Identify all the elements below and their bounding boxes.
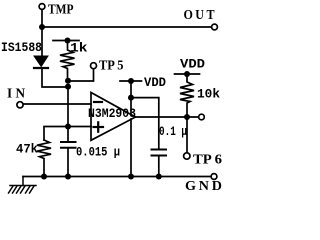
svg-text:O U T: O U T	[184, 8, 216, 23]
capacitor C1 0.015u	[61, 127, 76, 177]
op-amp VDD pin wire	[130, 98, 132, 114]
svg-text:TP 6: TP 6	[193, 153, 222, 168]
svg-text:G N D: G N D	[185, 179, 222, 194]
wire node C to op-amp plus input	[68, 126, 91, 128]
svg-text:N3M2903: N3M2903	[88, 107, 136, 121]
node E junction dot	[184, 114, 190, 120]
wire node A to diode anode	[41, 27, 43, 56]
svg-text:47k: 47k	[16, 143, 38, 157]
ground symbol	[9, 177, 37, 194]
svg-text:TP 5: TP 5	[99, 59, 124, 74]
wire IN to op-amp inverting input	[23, 103, 91, 105]
wire C2 bottom to rail	[158, 157, 160, 177]
wire node A to OUT	[42, 26, 212, 28]
op-amp output wire	[136, 116, 199, 118]
terminal output circle	[199, 114, 205, 120]
capacitor C2 0.1u	[152, 150, 167, 156]
resistor R1 1k supply bar	[53, 38, 79, 44]
op-amp U1 NJM2903	[91, 93, 136, 141]
terminal IN	[17, 102, 23, 108]
op-amp minus sign	[94, 101, 102, 103]
op-amp GND pin wire	[130, 119, 132, 177]
op-amp plus sign	[94, 122, 104, 131]
VDD supply stub R2	[175, 71, 200, 77]
node D junction dot	[128, 95, 134, 101]
wire VDD stub down to node D	[130, 81, 132, 98]
wire TMP to node A	[41, 10, 43, 28]
svg-text:0.015 μ: 0.015 μ	[76, 146, 120, 160]
junction dot C1 on rail	[65, 174, 71, 180]
wire diode cathode down and right to node B	[42, 68, 68, 87]
node B upper junction dot (TP5 tap)	[65, 78, 71, 84]
resistor R1 1k body	[60, 41, 75, 82]
wire node C left to resistor R3	[44, 127, 68, 141]
terminal GND	[211, 174, 217, 180]
svg-text:VDD: VDD	[144, 76, 166, 90]
svg-text:1k: 1k	[70, 42, 88, 56]
junction dot U1 gnd on rail	[128, 174, 134, 180]
terminal TP5	[91, 63, 97, 69]
wire node B to TP5	[68, 69, 94, 81]
wire node B down to plus input node C	[67, 87, 69, 127]
node C junction dot (plus input)	[65, 124, 71, 130]
svg-text:VDD: VDD	[180, 58, 206, 72]
wire node D to capacitor C2 top	[131, 98, 159, 149]
junction dot C2 on rail	[156, 174, 162, 180]
node A junction dot	[39, 24, 45, 30]
resistor R3 47k	[37, 140, 51, 177]
wire node E down to TP6	[186, 117, 188, 153]
junction dot R3 on rail	[41, 174, 47, 180]
VDD supply stub U1	[120, 78, 142, 84]
resistor R2 10k	[180, 74, 194, 117]
terminal OUT	[212, 24, 218, 30]
svg-text:TMP: TMP	[48, 3, 74, 18]
svg-text:IS1588: IS1588	[1, 41, 42, 55]
node B lower junction dot (diode joint)	[65, 84, 71, 90]
svg-text:0.1 μ: 0.1 μ	[159, 125, 187, 139]
svg-text:I N: I N	[7, 87, 25, 102]
ground rail	[23, 176, 211, 178]
terminal TMP	[39, 4, 45, 10]
svg-text:10k: 10k	[197, 88, 220, 102]
diode D1 IS1588	[34, 56, 48, 68]
terminal TP6	[184, 153, 190, 159]
